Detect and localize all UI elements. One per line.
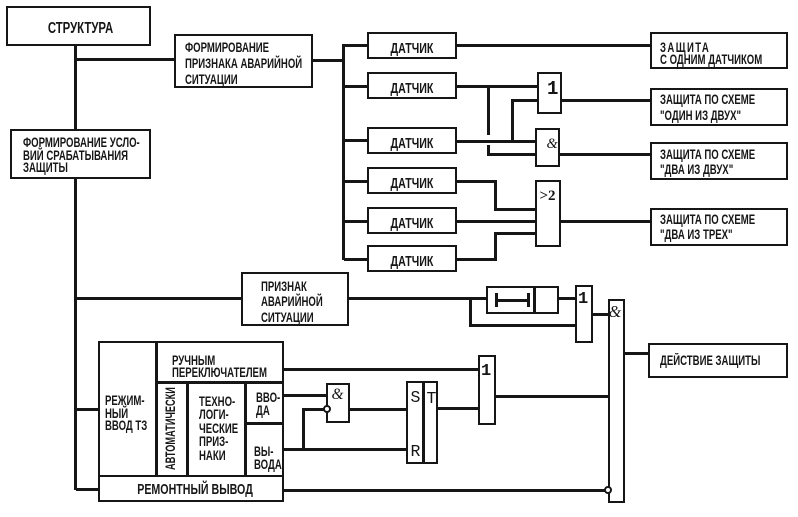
wire W34 timer output to OR G4 [559, 297, 575, 300]
wire W8 bus branch to sensor4 [344, 180, 367, 183]
wire W12 sensor2 to OR gate input 1 [457, 85, 537, 88]
wire W7 bus branch to sensor3 [344, 139, 367, 142]
wire W47 РЕМОНТНЫЙ output to inverted input bubble [284, 489, 605, 492]
wire W37 bus to РЕЖИМНЫЙ ВВОД input [76, 408, 98, 411]
block B2 ФОРМИРОВАНИЕ ПРИЗНАКА АВАРИЙНОЙ СИТУАЦИИ [174, 34, 313, 88]
label ВЫВОДА [254, 446, 282, 471]
wire W38 bus to РЕМОНТНЫЙ ВЫВОД input [76, 488, 98, 491]
wire W25 sensor6 output [457, 258, 497, 261]
T1 delay symbol horizontal bar [495, 299, 529, 302]
wire W45 T output to lower OR G7 [438, 407, 478, 410]
wire W26 sensor6 branch up [494, 232, 497, 260]
wire W19 OR gate output to ЗАЩИТА ОДИН ИЗ ДВУХ [562, 99, 650, 102]
label РЕЖИМНЫЙ ВВОД ТЗ [105, 395, 147, 433]
block B5 ДЕЙСТВИЕ ЗАЩИТЫ [648, 343, 788, 378]
block T1 time-delay element [486, 286, 559, 314]
block FF S-T-R flip-flop [406, 381, 438, 464]
FF label T [427, 390, 437, 408]
wire W14 branch continuation below crossing gap [487, 145, 490, 155]
wire W43 ВЫВОДА output to R input [284, 448, 406, 451]
block B4 ПРИЗНАК АВАРИЙНОЙ СИТУАЦИИ [241, 272, 349, 326]
wire W32 bypass branch down [469, 297, 472, 325]
wire W13 branch from sensor2 line downward (above crossing) [487, 85, 490, 135]
wire W21 sensor4 output [457, 180, 497, 183]
label ВВОДА [256, 392, 280, 417]
G5 inverted input bubble [604, 486, 612, 494]
wire W9 bus branch to sensor5 [344, 220, 367, 223]
label АВТОМАТИЧЕСКИ rotated [165, 387, 178, 470]
wire W6 bus branch to sensor2 [344, 85, 367, 88]
wire W15 branch into AND gate lower input [487, 153, 537, 156]
wire W24 sensor5 into majority input 2 [457, 220, 535, 223]
wire W20 AND gate output to ЗАЩИТА ДВА ИЗ ДВУХ [560, 153, 650, 156]
T1 delay symbol right tick [527, 293, 530, 307]
wire W46 G7 output to tall AND [496, 395, 608, 398]
wire W42 bubble wire vertical down to R line [302, 408, 305, 449]
block B6 mode-input compound box [98, 341, 284, 478]
label ТЕХНОЛОГИЧЕСКИЕ ПРИЗНАКИ [199, 395, 238, 462]
block D2 ДАТЧИК sensor 2 [367, 72, 457, 99]
block D3 ДАТЧИК sensor 3 [367, 127, 457, 154]
wire W44 small AND output to S input [350, 408, 406, 411]
wire W39 РУЧНЫМ output to lower OR G7 [284, 368, 478, 371]
wire W41 bubble wire horizontal [302, 408, 324, 411]
block Z2 ЗАЩИТА ПО СХЕМЕ ОДИН ИЗ ДВУХ [650, 88, 788, 126]
block Z4 ЗАЩИТА ПО СХЕМЕ ДВА ИЗ ТРЕХ [650, 208, 788, 246]
block B1 СТРУКТУРА [6, 6, 151, 46]
block D4 ДАТЧИК sensor 4 [367, 167, 457, 194]
wire W10 bus branch to sensor6 [344, 258, 367, 261]
B6 divider horizontal under РУЧНЫМ [157, 381, 282, 384]
gate G6 small AND "&" [326, 383, 350, 423]
block B3 ФОРМИРОВАНИЕ УСЛОВИЙ СРАБАТЫВАНИЯ ЗАЩИТЫ [10, 129, 151, 179]
FF label R [411, 443, 421, 461]
B6 divider vertical right of АВТОМАТИЧЕСКИ [186, 383, 189, 476]
block Z3 ЗАЩИТА ПО СХЕМЕ ДВА ИЗ ДВУХ [650, 142, 788, 180]
B6 divider horizontal between ВВОДА and ВЫВОДА [246, 422, 282, 425]
wire W35 G4 output to tall AND [593, 313, 608, 316]
T1 delay symbol left tick [495, 293, 498, 307]
gate G2 AND "&" two-of-two [535, 128, 560, 167]
wire W33 bypass horizontal into OR G4 [469, 324, 575, 327]
block B7 РЕМОНТНЫЙ ВЫВОД [98, 475, 284, 502]
wire W2 horizontal to ФОРМИРОВАНИЕ ПРИЗНАКА [76, 58, 174, 61]
wire W18 riser into OR gate input 2 [513, 99, 537, 102]
wire W23 sensor4 into majority input 1 [494, 208, 535, 211]
wire W5 bus branch to sensor1 [344, 44, 367, 47]
wire W11 sensor1 to ЗАЩИТА С ОДНИМ ДАТЧИКОМ [457, 44, 650, 47]
wire W1 vertical from СТРУКТУРА to ФОРМИРОВАНИЕ УСЛОВИЙ [74, 46, 77, 130]
wire W3 ФОРМИРОВАНИЕ ПРИЗНАКА output to sensor bus [313, 59, 344, 62]
wire W30 bus to ПРИЗНАК АВАРИЙНОЙ СИТУАЦИИ [76, 297, 241, 300]
block D5 ДАТЧИК sensor 5 [367, 207, 457, 234]
label РУЧНЫМ ПЕРЕКЛЮЧАТЕЛЕМ [172, 355, 267, 379]
gate G7 lower OR "1" [478, 355, 496, 425]
B6 divider vertical right of РЕЖИМНЫЙ [155, 343, 158, 476]
G6 inverted input bubble [323, 405, 331, 413]
wire W16 sensor3 to AND gate upper input [457, 140, 537, 143]
block D1 ДАТЧИК sensor 1 [367, 32, 457, 59]
gate G4 OR "1" after timer [575, 285, 593, 343]
B6 divider vertical right of ТЕХНОЛОГИЧЕСКИЕ [244, 383, 247, 476]
wire W36 tall AND output to ДЕЙСТВИЕ ЗАЩИТЫ [625, 352, 648, 355]
T1 internal divider [533, 288, 536, 312]
wire W28 majority output to ЗАЩИТА ДВА ИЗ ТРЕХ [561, 220, 650, 223]
FF label S [411, 389, 421, 407]
block Z1 ЗАЩИТА С ОДНИМ ДАТЧИКОМ [650, 32, 788, 69]
gate G3 majority ">2" two-of-three [535, 180, 561, 247]
block D6 ДАТЧИК sensor 6 [367, 245, 457, 272]
wire W17 riser from sensor3 line up to OR input 2 [511, 99, 514, 142]
gate G1 OR "1" one-of-two [537, 72, 562, 114]
wire W29 left bus vertical down from ФОРМИРОВАНИЕ УСЛОВИЙ [74, 179, 77, 490]
FF internal divider [422, 383, 425, 462]
wire W40 ВВОДА output to small AND [284, 394, 326, 397]
wire W22 sensor4 branch down [494, 180, 497, 210]
gate G5 tall AND "&" output gate [608, 299, 625, 503]
wire W4 sensor bus vertical [342, 44, 345, 260]
wire W27 sensor6 into majority input 3 [494, 232, 535, 235]
wire W31 ПРИЗНАК output to time-delay element [349, 297, 486, 300]
